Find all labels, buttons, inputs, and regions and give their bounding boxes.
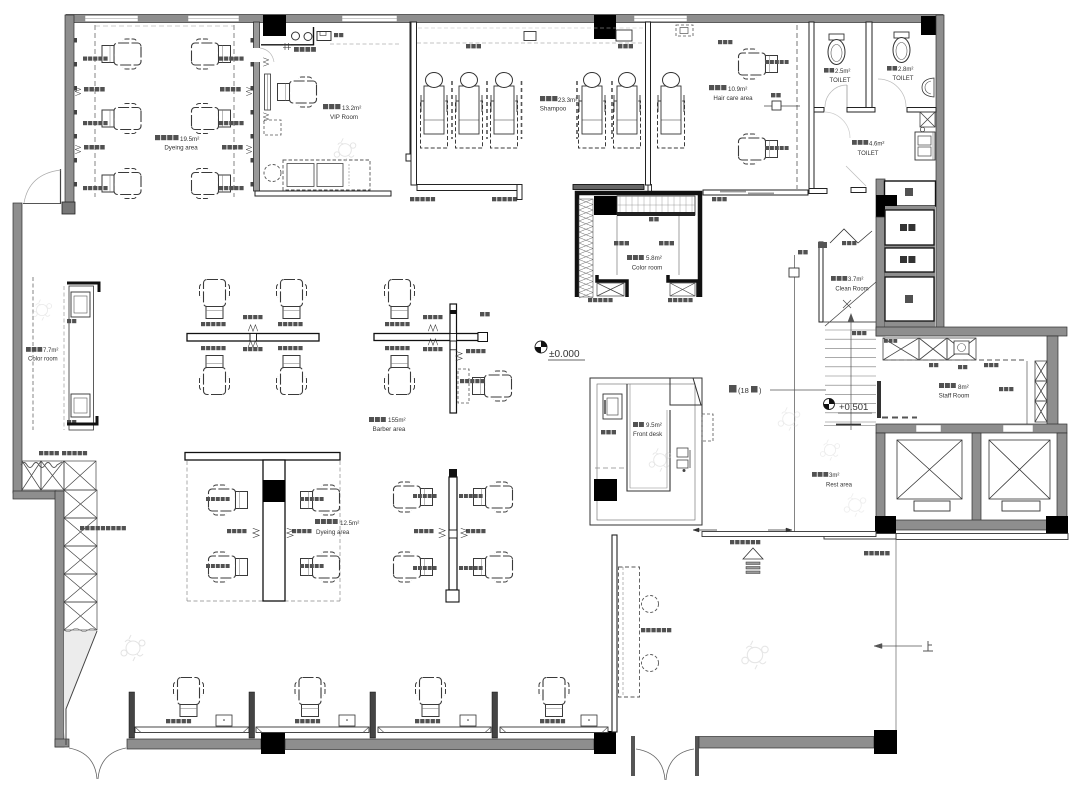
hair care chair 2 xyxy=(739,134,778,164)
water shaft box xyxy=(885,181,936,206)
bottom chairs xyxy=(174,678,204,717)
right exterior wall xyxy=(936,15,944,328)
station2 right chair xyxy=(473,371,512,401)
wardrobe label xyxy=(649,217,653,221)
VIP side door arc xyxy=(260,48,274,62)
stair landing line xyxy=(823,321,876,323)
male toilet fixture xyxy=(894,32,909,38)
VIP sink box xyxy=(317,32,331,41)
sliding door symbol xyxy=(743,548,763,559)
color room sink 2 label xyxy=(67,420,71,424)
showcase wall line below elevators xyxy=(896,534,1068,540)
column bottom D xyxy=(261,730,285,754)
svg-text:23.3m²: 23.3m² xyxy=(558,97,577,104)
washroom bottom wall pieces xyxy=(809,189,827,194)
shampoo chair 1 xyxy=(421,73,448,149)
VIP counter sink circles xyxy=(292,32,300,40)
dyeing1 chair-label right row2 xyxy=(219,121,223,125)
svg-text:Hair care area: Hair care area xyxy=(713,95,753,102)
stair steps xyxy=(825,329,876,331)
elevator shaft walls xyxy=(876,433,885,521)
station2 bar end box xyxy=(478,333,488,342)
front desk black column xyxy=(594,479,617,501)
svg-text:Staff Room: Staff Room xyxy=(939,393,970,400)
diagonal shaded area bottom-left xyxy=(64,631,96,740)
staff bottom wall xyxy=(876,424,1067,433)
staff small dashes xyxy=(882,417,917,419)
stair label xyxy=(852,331,856,335)
mirror wall box xyxy=(789,268,799,277)
svg-text:3.7m²: 3.7m² xyxy=(848,277,863,283)
staff room label xyxy=(939,383,944,388)
sofa side tables xyxy=(642,596,659,613)
mirror wall line xyxy=(794,255,796,535)
station3 vertical stem xyxy=(263,460,285,601)
dyeing1 chair left row1 xyxy=(102,39,141,69)
dyeing area 1 right wall (VIP left wall) xyxy=(254,22,260,191)
water shaft walls xyxy=(876,179,885,217)
station3 chairs right xyxy=(301,485,340,515)
column at shaft xyxy=(876,195,897,217)
dyeing1 chair-label right row3 xyxy=(219,186,223,190)
color room sink 1 xyxy=(71,292,90,317)
up arrow right area xyxy=(874,645,922,647)
washroom door swing xyxy=(824,112,850,138)
VIP sink counter xyxy=(261,27,314,45)
station4 chair labels xyxy=(413,494,417,498)
air shaft xyxy=(885,277,934,321)
elevator 1 door xyxy=(914,501,950,511)
dyeing1 chair-label right row1 xyxy=(219,57,223,61)
bag cabinet labels xyxy=(614,241,618,245)
storage bottom-right wall L xyxy=(668,275,698,297)
curtain wavy line xyxy=(21,462,62,468)
storage wardrobe hatch band xyxy=(617,196,695,215)
bottom mirror counter segments xyxy=(135,727,249,733)
dyeing area 1 dashed boundary top xyxy=(95,25,234,27)
svg-text:12.5m²: 12.5m² xyxy=(340,520,359,527)
washroom left wall xyxy=(809,22,814,189)
dyeing1 chair left row3 xyxy=(102,169,141,199)
storage room outer walls xyxy=(577,193,700,297)
VIP styling chair xyxy=(278,77,317,107)
staff vertical line xyxy=(1026,361,1028,424)
elevator 2 cab xyxy=(989,440,1050,499)
station3 stem black section xyxy=(263,480,285,502)
dyeing1 chair left row2 xyxy=(102,104,141,134)
staff sink in cabinet xyxy=(954,341,969,354)
left exterior wall lower xyxy=(55,491,64,747)
shampoo chair 4 xyxy=(579,73,606,149)
electric sliding door label xyxy=(730,540,734,544)
dyeing area 1 room label xyxy=(155,135,160,140)
station2 plaster lamp labels xyxy=(423,315,427,319)
dyeing area 1 dashed boundary right xyxy=(233,25,235,197)
bottom chair labels xyxy=(166,719,170,723)
hair care room label xyxy=(709,85,714,90)
rest area bottom double line xyxy=(824,534,896,540)
svg-text:Clean Room: Clean Room xyxy=(835,287,868,293)
dyeing1 chair-label left row2 xyxy=(83,121,87,125)
window above VIP xyxy=(342,16,397,22)
VIP couch dashed xyxy=(283,160,370,190)
tool cabinet label mid xyxy=(80,526,84,530)
column top-right C xyxy=(921,16,941,35)
toilet horizontal wall segments xyxy=(814,108,824,113)
station4 plaster lamp labels xyxy=(414,529,418,533)
svg-text:Color room: Color room xyxy=(28,357,58,363)
hair care shelf label xyxy=(718,40,722,44)
elevator corner columns xyxy=(875,516,896,538)
entrance door posts xyxy=(631,736,635,776)
svg-text:TOILET: TOILET xyxy=(858,151,879,157)
color room counter bottom L xyxy=(67,416,97,424)
bottom-left scribble xyxy=(121,635,145,661)
shampoo chair 2 xyxy=(456,73,483,149)
svg-text:TOILET: TOILET xyxy=(830,78,851,84)
VIP wall lamp zigzags xyxy=(263,58,269,66)
showcase interior wall vertical xyxy=(612,535,617,732)
dyeing1 wall ticks right xyxy=(251,38,254,43)
door swing arc at dyeing room 1 entry xyxy=(24,170,61,203)
strong electric shaft xyxy=(885,210,934,245)
elevator 2 door xyxy=(1002,501,1040,511)
rest area top line xyxy=(824,425,876,427)
storage left hatched strip xyxy=(579,199,593,297)
color room dashed boundary xyxy=(32,277,34,430)
svg-text:Shampoo: Shampoo xyxy=(540,106,567,113)
VIP small dashed box xyxy=(264,120,281,135)
mid horizontal thick wall xyxy=(876,327,1067,336)
elevator bottom band xyxy=(876,520,1067,530)
VIP right wall xyxy=(410,22,415,158)
barber area label xyxy=(369,417,374,422)
hair care shampoo chair xyxy=(658,73,685,149)
dyeing1 wall ticks left xyxy=(74,38,77,43)
bottom exterior wall mid xyxy=(285,739,594,750)
svg-text:Rest area: Rest area xyxy=(826,483,853,489)
water bar label xyxy=(601,430,605,434)
shampoo storage box 2 xyxy=(616,30,632,41)
station3 chairs left xyxy=(209,485,248,515)
storage column xyxy=(594,196,617,215)
dyeing1 chair right row3 xyxy=(192,169,231,199)
door leaf at dyeing room 1 entry xyxy=(60,169,62,204)
bottom small boxes xyxy=(216,715,232,726)
svg-text:10.9m²: 10.9m² xyxy=(728,86,747,93)
tool cabinet X column xyxy=(64,490,97,518)
tool cabinet X row xyxy=(22,461,41,490)
storage display cabinet label left xyxy=(588,298,592,302)
station3 plaster lamp labels xyxy=(227,529,231,533)
window above shampoo xyxy=(634,16,687,22)
station2 mirror label xyxy=(480,312,484,316)
color room sink 1 label xyxy=(67,319,71,323)
front desk side dashed box xyxy=(702,414,713,441)
washroom X cabinet xyxy=(920,112,935,127)
column bottom E at entrance xyxy=(594,731,616,754)
bottom mirror posts xyxy=(129,692,135,738)
left exterior wall xyxy=(13,203,22,493)
up 18 steps label xyxy=(729,385,737,393)
entrance double door arcs xyxy=(636,749,665,780)
station2 counter bar xyxy=(374,334,478,341)
VIP plant scribble xyxy=(334,138,356,161)
male toilet label xyxy=(887,66,892,71)
female toilet label xyxy=(824,68,829,73)
station1 counter bar xyxy=(187,334,319,342)
color room scribble xyxy=(32,300,51,321)
svg-text:7.7m²: 7.7m² xyxy=(43,348,58,354)
door sign label A xyxy=(410,197,414,201)
front desk U counter xyxy=(627,384,670,491)
dyeing area 2 label xyxy=(315,519,320,524)
hair care storage dashed box xyxy=(676,25,693,36)
color room sink 2 xyxy=(71,394,90,417)
mirror feature label and box xyxy=(771,93,775,97)
station2 vertical partition xyxy=(450,304,457,413)
svg-text:8m²: 8m² xyxy=(958,384,969,391)
sofa label xyxy=(641,628,645,632)
shampoo chair 5 xyxy=(614,73,641,149)
station4 chairs xyxy=(394,482,433,512)
station3 top bar xyxy=(185,453,340,461)
sliding door arrows xyxy=(693,529,717,531)
folding door zigzag xyxy=(830,229,872,243)
electric sliding door wall xyxy=(702,532,876,537)
station2 chair bottom xyxy=(385,356,415,395)
sofa dashed bench xyxy=(619,567,640,697)
station1 chair labels xyxy=(201,322,205,326)
VIP room label xyxy=(323,104,328,109)
staff labels xyxy=(884,339,888,343)
window top-left 1 xyxy=(85,16,138,22)
front desk POS xyxy=(677,448,688,457)
level marker +0.501 xyxy=(824,399,835,410)
dyeing1 art wall lamp labels left xyxy=(84,87,89,92)
dyeing1 chair-label left row3 xyxy=(83,186,87,190)
VIP counter dashed edge xyxy=(330,43,400,45)
dyeing1 art wall lamp labels right xyxy=(220,87,225,92)
VIP art lamp symbol and label xyxy=(283,43,291,50)
top exterior wall xyxy=(66,15,943,23)
showcase wall label xyxy=(864,551,868,555)
storage bottom-left wall L xyxy=(597,275,627,297)
staff cabinet dashed front xyxy=(883,359,1025,361)
window top-left 2 xyxy=(188,16,239,22)
svg-text:19.5m²: 19.5m² xyxy=(180,136,199,143)
front desk dashes xyxy=(595,467,627,469)
svg-text:13.2m²: 13.2m² xyxy=(342,105,361,112)
diagonal wall bottom-left xyxy=(66,631,97,745)
svg-text:(18: (18 xyxy=(738,386,749,395)
right exterior wall lower xyxy=(1047,336,1058,426)
stair diagonal break xyxy=(825,282,876,326)
color room counter top L xyxy=(67,283,99,292)
left wall of dyeing room 1 xyxy=(65,15,74,205)
svg-text:Barber area: Barber area xyxy=(373,426,406,433)
station1 plaster lamp labels xyxy=(243,315,247,319)
staff left wall stub xyxy=(877,381,881,418)
washroom sink cabinet xyxy=(915,132,935,160)
shampoo room label xyxy=(540,96,545,101)
water shaft label xyxy=(905,188,913,196)
hair care bottom wall with sliding door xyxy=(703,190,808,195)
column bottom F xyxy=(874,730,897,754)
dyeing area 2 dashed boundary xyxy=(186,461,188,601)
stair up arrow xyxy=(850,320,852,430)
dyeing area 1 dashed boundary left xyxy=(94,25,96,197)
storage inner partitions xyxy=(616,216,618,275)
shampoo chair 3 xyxy=(491,73,518,149)
female toilet door arc xyxy=(825,85,847,107)
bottom-left wall cap xyxy=(55,739,69,747)
tool cabinet label top xyxy=(39,451,43,455)
corridor wall below shampoo (dark) xyxy=(573,185,644,190)
urinal xyxy=(922,78,934,97)
exterior wall step horizontal xyxy=(13,491,56,499)
VIP sink label xyxy=(334,33,338,37)
entry scribbles xyxy=(742,641,768,670)
VIP round side table xyxy=(264,165,281,182)
storage room label xyxy=(627,255,632,260)
station2 chair top xyxy=(385,280,415,319)
column top B xyxy=(594,15,616,39)
weak electric shaft xyxy=(885,248,934,272)
color room counter body xyxy=(69,286,94,430)
station3 chair labels xyxy=(206,497,210,501)
bottom exterior wall right of entrance xyxy=(699,737,874,749)
svg-text:9.5m²: 9.5m² xyxy=(646,422,662,429)
storage display cabinet right xyxy=(670,283,695,296)
VIP bottom wall xyxy=(255,191,391,196)
shampoo room left wall xyxy=(411,22,417,185)
station1 chair top xyxy=(277,280,307,319)
bottom-left double door arcs xyxy=(69,748,97,779)
dyeing1 chair right row1 xyxy=(192,39,231,69)
riser background xyxy=(885,206,935,327)
shampoo storage cabinet label xyxy=(466,44,470,48)
shampoo chair dashed dividers xyxy=(451,81,453,139)
front desk top-right counter xyxy=(670,378,701,405)
svg-text:±0.000: ±0.000 xyxy=(549,349,580,360)
svg-text:Color room: Color room xyxy=(632,265,663,272)
washroom label xyxy=(852,140,857,145)
wall stub at storage corner xyxy=(648,185,652,192)
svg-text:TOILET: TOILET xyxy=(893,76,914,82)
sliding door label xyxy=(712,197,716,201)
shampoo room bottom wall xyxy=(417,185,522,191)
svg-text:Dyeing area: Dyeing area xyxy=(164,145,198,152)
station2 chair labels xyxy=(385,322,389,326)
svg-text:2.5m²: 2.5m² xyxy=(835,69,850,75)
svg-text:3m²: 3m² xyxy=(829,473,839,479)
dyeing1 chair-label left row1 xyxy=(83,57,87,61)
water bar cabinet xyxy=(603,394,622,419)
svg-text:155m²: 155m² xyxy=(388,417,406,424)
svg-text:5.8m²: 5.8m² xyxy=(646,255,662,262)
svg-text:4.6m²: 4.6m² xyxy=(869,142,884,148)
svg-text:Dyeing area: Dyeing area xyxy=(316,529,350,536)
svg-text:2.8m²: 2.8m² xyxy=(898,67,913,73)
clean room left wall xyxy=(819,242,823,322)
station4 vertical partition xyxy=(449,477,457,590)
toilet divider wall xyxy=(866,22,872,110)
riser shaft wall left xyxy=(876,217,885,336)
door sign label B xyxy=(492,197,496,201)
staff right X strip xyxy=(1035,361,1047,381)
storage display cabinet label right xyxy=(668,298,672,302)
toilet door swing marks xyxy=(846,166,866,186)
station1 chair bottom xyxy=(200,356,230,395)
svg-text:Front desk: Front desk xyxy=(633,431,663,438)
hair care chair 1 xyxy=(739,49,778,79)
hair care left wall xyxy=(646,22,651,185)
dyeing1 chair right row2 xyxy=(192,104,231,134)
color room label xyxy=(26,347,31,352)
column top A xyxy=(263,15,286,36)
mirror wall label xyxy=(798,250,802,254)
level marker 0.000 xyxy=(535,341,547,353)
storage display cabinet left xyxy=(597,283,624,296)
elevator 1 cab xyxy=(897,440,962,499)
front desk scribble xyxy=(649,448,671,471)
female toilet fixture xyxy=(829,34,844,40)
front desk label xyxy=(633,422,638,427)
rest area label xyxy=(812,472,817,477)
staff room top cabinets xyxy=(883,338,919,360)
clean room label xyxy=(831,276,836,281)
lintel line over left door xyxy=(23,203,60,205)
svg-text:+0.501: +0.501 xyxy=(839,402,868,413)
showcase wall vertical line xyxy=(895,540,897,731)
folding door label xyxy=(842,241,846,245)
front desk outer boundary xyxy=(590,378,702,525)
hair care dashed right boundary xyxy=(796,25,798,189)
shampoo storage box 1 xyxy=(524,32,536,41)
station1 chair top xyxy=(200,280,230,319)
male toilet door arc xyxy=(878,79,906,107)
VIP mirror strip on left wall xyxy=(265,74,271,110)
svg-text:VIP Room: VIP Room xyxy=(330,114,358,121)
station1 chair bottom xyxy=(277,356,307,395)
wall corner cap below dyeing room 1 xyxy=(62,202,75,214)
bottom exterior wall left of entrance xyxy=(127,739,261,749)
